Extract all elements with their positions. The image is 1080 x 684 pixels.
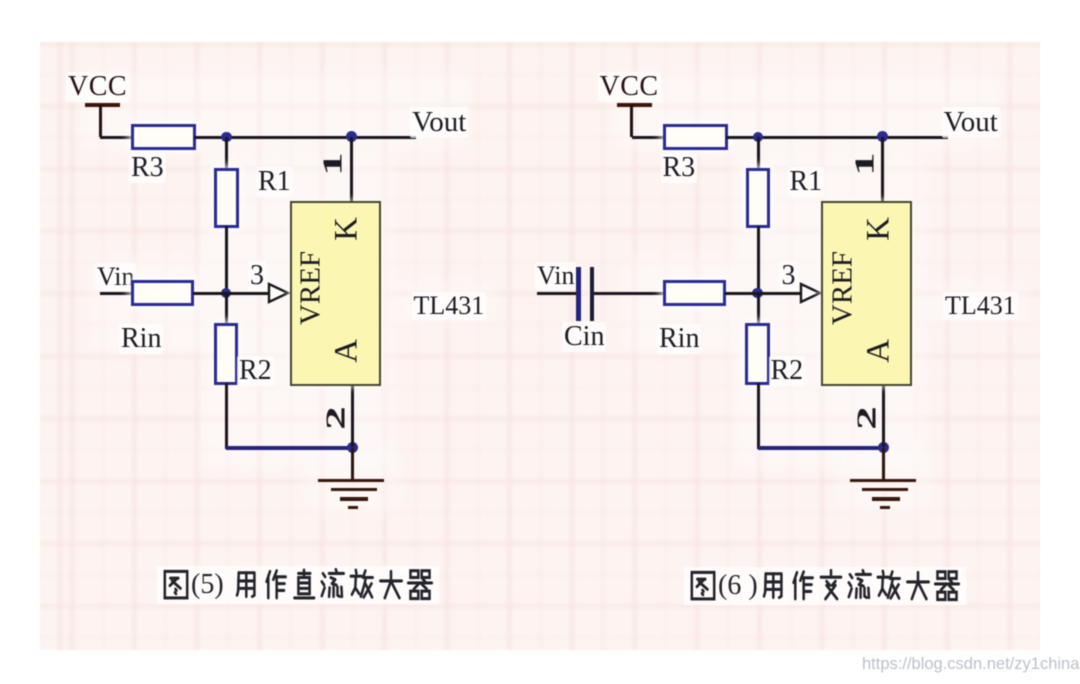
wire VCC corner to R3 [632,136,664,139]
VCC label [598,72,661,102]
pin number 3 [248,261,266,291]
wire R2 to node4 [226,446,354,450]
op-amp U TL431 body [821,201,912,386]
Vin label [95,263,136,291]
decorative white halo [305,440,400,515]
TL431 designator [412,292,487,320]
pin number 3 [780,261,798,291]
pin2 wire [882,386,885,447]
resistor R1 [746,168,771,228]
resistor R2 [745,323,770,385]
A pin name [862,339,895,363]
ground bar2 [862,488,908,492]
decorative white halo [622,255,742,355]
caption figure5 text 图(5) 用作直流放大器 [157,566,439,604]
pin1 wire [350,137,353,202]
resistor R3 [131,124,196,150]
junction node3 [221,288,231,298]
wire node3 to R2 [225,293,228,324]
watermark url text [862,656,1079,673]
Vin label [535,262,576,290]
decorative white halo [612,70,1002,150]
wire R2 down [225,383,228,449]
R1 label [256,167,293,197]
VCC power-bar [617,103,652,107]
wire Vout rail [225,136,416,139]
decorative white halo [837,440,932,515]
ground bar2 [331,488,377,492]
VCC power-bar [85,103,120,107]
wire node1 to R1 [757,137,760,169]
wire R1 to node3 [225,226,228,294]
VCC stem wire [99,105,102,137]
resistor Rin [131,280,194,306]
Rin label [657,324,701,354]
ground bar3 [340,497,368,501]
wire node3 to pin3 [758,292,802,295]
pin number 2 [854,406,881,430]
op-amp U TL431 body [290,201,381,386]
Vout label [410,107,468,138]
wire Vout rail [757,136,948,139]
R2 label [769,356,806,386]
capacitor Cin plate1 [576,267,581,321]
wire Vin to Rin [100,292,132,295]
wire VCC corner to R3 [100,136,132,139]
R3 label [661,153,698,183]
ground bar1 [850,479,916,483]
R3 label [129,153,166,183]
ground stem [351,448,354,479]
wire Rin to node3 [193,292,227,295]
K pin name [331,217,364,241]
resistor Rin [663,280,726,306]
decorative white halo [732,150,927,470]
decorative white halo [927,280,1027,325]
capacitor Cin plate2 [590,267,595,321]
K pin name [862,217,895,241]
decorative white halo [80,70,470,150]
ground bar4 [348,506,358,509]
pin3 input arrow [799,282,823,304]
decorative white halo [200,150,395,470]
junction node2 pin1 [877,131,888,142]
junction node1 [753,132,763,142]
wire node1 to R1 [225,137,228,169]
R1 label [788,167,825,197]
junction node4 [878,442,889,453]
TL431 designator [943,292,1018,320]
wire R3 to node1 [726,136,759,139]
pin number 1 [320,152,347,176]
ground stem [882,448,885,479]
wire Vin to Cin [537,292,577,295]
wire R2 down [757,383,760,449]
resistor R3 [663,124,728,150]
pin1 wire [881,137,884,202]
Cin label [562,322,606,352]
ground bar4 [880,506,890,509]
wire node3 to R2 [757,293,760,324]
ground bar3 [872,497,900,501]
wire node3 to pin3 [226,292,270,295]
pin number 2 [322,406,349,430]
decorative white halo [395,280,495,325]
decorative white halo [90,255,210,355]
ground bar1 [318,479,384,483]
junction node2 pin1 [346,131,357,142]
Vout label [942,107,1000,138]
wire Cin to Rin [594,292,664,295]
wire R2 to node4 [758,446,886,450]
junction node3 [752,288,762,298]
resistor R1 [214,168,239,228]
VREF pin name [297,251,326,325]
wire R3 to node1 [194,136,227,139]
VCC stem wire [630,105,633,137]
pin3 input arrow [267,282,291,304]
resistor R2 [214,323,239,385]
VREF pin name [828,251,857,325]
wire Rin to node3 [725,292,759,295]
R2 label [237,356,274,386]
VCC label [66,72,129,102]
pin number 1 [851,152,878,176]
caption figure6 text 图(6)用作交流放大器 [684,567,966,605]
Rin label [119,324,163,354]
pin2 wire [351,386,354,447]
A pin name [331,339,364,363]
junction node4 [347,442,358,453]
junction node1 [221,132,231,142]
wire R1 to node3 [757,226,760,294]
